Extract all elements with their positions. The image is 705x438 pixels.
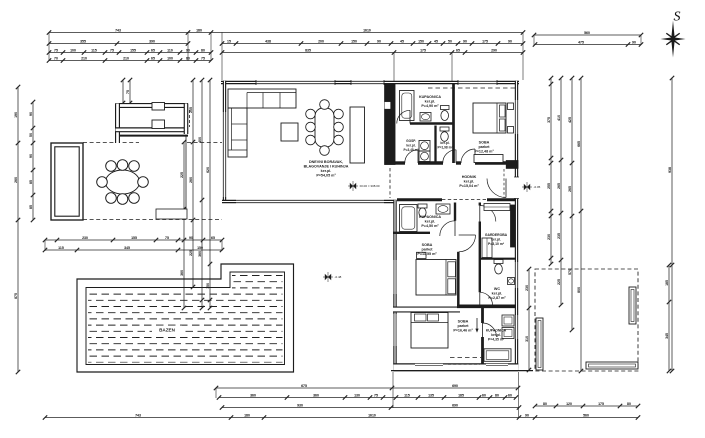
interior wall: garderoba/wc left <box>479 203 481 307</box>
svg-text:410: 410 <box>557 115 561 121</box>
exterior wall: wing left <box>393 200 396 370</box>
pool water hatching <box>78 276 290 363</box>
window: wing left wall bedroom 2 <box>394 260 396 294</box>
bed bedroom 2 <box>416 260 456 296</box>
roof overhang dashed top <box>428 87 515 89</box>
hallway bottom dashed opening <box>442 199 487 201</box>
door: bathroom 2 <box>440 221 455 236</box>
interior wall: bath block / bedroom 1 divider <box>452 84 455 163</box>
pool outer edge <box>77 264 294 372</box>
interior wall: bathroom 2 bottom <box>393 232 430 234</box>
svg-text:P=16,46 m²: P=16,46 m² <box>453 329 473 333</box>
svg-text:P=3,10 m²: P=3,10 m² <box>488 242 505 246</box>
front door opening in right wall <box>514 177 519 199</box>
svg-text:60: 60 <box>482 394 486 398</box>
room label: bedroom 1 <box>474 141 494 154</box>
svg-text:ker.pl.: ker.pl. <box>321 169 332 173</box>
svg-text:90: 90 <box>189 236 193 240</box>
nightstand bedroom 2 <box>417 252 427 258</box>
svg-text:360: 360 <box>313 394 319 398</box>
svg-text:360: 360 <box>198 251 202 257</box>
elevation marker: pool deck <box>323 272 342 282</box>
svg-text:P=4,90 m²: P=4,90 m² <box>421 104 439 108</box>
svg-text:225: 225 <box>180 172 184 178</box>
svg-text:-0.48: -0.48 <box>335 275 342 279</box>
svg-text:375: 375 <box>547 117 551 123</box>
svg-text:90: 90 <box>632 41 636 45</box>
room label: bathroom 1 <box>419 95 441 108</box>
cabinet bathroom 3 lower <box>502 328 514 339</box>
outdoor storage structure (left) <box>51 143 83 220</box>
svg-text:260: 260 <box>189 177 193 183</box>
svg-text:ker.pl.: ker.pl. <box>492 292 503 296</box>
svg-text:255: 255 <box>547 183 551 189</box>
dimension chain: bottom row 2 (segments) <box>217 394 518 400</box>
door: gosp room <box>405 150 418 163</box>
door: bathroom 1 <box>397 110 410 123</box>
door: garderoba <box>480 206 496 222</box>
north arrow compass star <box>661 21 686 58</box>
exterior wall: living room left <box>223 81 226 203</box>
window: wing left wall bedroom 3 <box>394 314 396 346</box>
svg-text:BAZEN: BAZEN <box>159 328 176 333</box>
svg-text:parket: parket <box>457 324 469 328</box>
svg-text:ker.pl.: ker.pl. <box>425 100 436 104</box>
toilet wc 1 <box>440 127 449 141</box>
svg-text:175: 175 <box>420 49 426 53</box>
entry canopy wall line down to step <box>185 135 187 209</box>
svg-text:90: 90 <box>377 40 381 44</box>
front door leaf dashed <box>503 169 505 198</box>
svg-text:675: 675 <box>301 384 307 388</box>
svg-text:938: 938 <box>668 167 672 173</box>
dimension chain: top right (560) <box>532 31 643 37</box>
svg-text:P=3,48 m²: P=3,48 m² <box>404 148 419 152</box>
interior wall: bedroom divider <box>393 307 460 313</box>
svg-text:GOSP.: GOSP. <box>406 139 416 143</box>
exterior wall: living room bottom <box>222 200 396 203</box>
svg-text:180: 180 <box>244 414 250 418</box>
svg-text:75: 75 <box>54 49 58 53</box>
interior wall: garderoba bottom <box>480 258 516 260</box>
svg-text:150: 150 <box>418 40 424 44</box>
svg-text:SOBA: SOBA <box>422 243 433 247</box>
svg-text:360: 360 <box>180 270 184 276</box>
svg-text:225: 225 <box>557 279 561 285</box>
room label: wc 2 <box>488 287 506 300</box>
terrace door dashes on bottom wall <box>448 363 480 365</box>
room label: wc 1 <box>438 141 453 150</box>
svg-text:-0.05: -0.05 <box>534 185 541 189</box>
svg-text:425: 425 <box>568 117 572 123</box>
dimension chain: far right vertical (938) <box>668 76 674 373</box>
dimension chain: top row 3 left (small segments) <box>47 49 213 55</box>
window: top wall kitchen <box>351 80 384 85</box>
terrace dashed boundary top <box>83 142 222 144</box>
dimension chain: top row 4 left <box>47 57 213 63</box>
exterior wall: right <box>515 81 518 368</box>
svg-text:P=4,35 m²: P=4,35 m² <box>488 338 505 342</box>
room label: bedroom 3 <box>453 320 473 333</box>
svg-text:800: 800 <box>577 287 581 293</box>
window: left wall living room <box>224 112 226 197</box>
svg-text:360: 360 <box>250 394 256 398</box>
garderoba shelf right <box>511 205 516 247</box>
dimension chain: terrace row 1 <box>43 236 224 242</box>
svg-text:90: 90 <box>525 414 529 418</box>
svg-text:±0.00 = 308.00: ±0.00 = 308.00 <box>360 184 380 188</box>
svg-text:290: 290 <box>491 49 497 53</box>
svg-text:75: 75 <box>110 49 114 53</box>
svg-text:175: 175 <box>598 402 604 406</box>
interior wall: gosp / wc divider <box>434 126 436 162</box>
dimension chain: bottom row 3 (930/690) <box>220 404 521 410</box>
svg-text:75: 75 <box>374 394 378 398</box>
svg-text:560: 560 <box>584 31 590 35</box>
interior wall: corridor & wc bottom <box>457 304 516 308</box>
exterior wall: top <box>221 81 519 84</box>
svg-text:85: 85 <box>29 205 33 209</box>
svg-text:70: 70 <box>54 57 58 61</box>
svg-text:110: 110 <box>167 49 173 53</box>
svg-text:P=4,50 m²: P=4,50 m² <box>421 224 439 228</box>
svg-text:265: 265 <box>557 183 561 189</box>
svg-text:P=54,05 m²: P=54,05 m² <box>316 174 336 178</box>
outdoor dining table <box>106 170 140 194</box>
svg-text:120: 120 <box>566 402 572 406</box>
svg-text:65: 65 <box>211 236 215 240</box>
svg-text:ker.pl.: ker.pl. <box>425 220 436 224</box>
entry canopy open side dashed <box>189 110 191 127</box>
exterior wall: wing bottom <box>393 363 518 371</box>
garderoba shelf top <box>484 204 510 211</box>
svg-text:90: 90 <box>29 112 33 116</box>
window: bottom wall bedroom 3 <box>415 362 443 366</box>
svg-text:90: 90 <box>508 40 512 44</box>
terrace dashed boundary bottom <box>83 219 222 221</box>
dimension chain: mid vertical 3 <box>198 78 204 310</box>
svg-text:185: 185 <box>458 394 464 398</box>
svg-text:SOBA: SOBA <box>479 141 490 145</box>
svg-text:390: 390 <box>149 40 155 44</box>
entry canopy bench detail <box>152 120 165 129</box>
svg-text:ker.pl.: ker.pl. <box>491 333 501 337</box>
roof overhang dashed bottom <box>450 357 481 359</box>
bench bedroom 1 <box>474 155 503 163</box>
bathtub bathroom 2 <box>400 205 418 232</box>
svg-text:570: 570 <box>568 269 572 275</box>
svg-text:835: 835 <box>305 49 311 53</box>
svg-text:75: 75 <box>165 236 169 240</box>
svg-text:225: 225 <box>189 250 193 256</box>
dining table <box>315 108 334 147</box>
svg-text:KUPAONICA: KUPAONICA <box>419 95 441 99</box>
window: bottom wall bathroom 3 <box>486 362 508 366</box>
svg-text:475: 475 <box>578 41 584 45</box>
entry canopy pillar detail top <box>152 103 165 111</box>
svg-text:65: 65 <box>151 57 155 61</box>
svg-text:KUPAONICA: KUPAONICA <box>486 329 507 333</box>
svg-text:GARDEROBA: GARDEROBA <box>485 233 508 237</box>
window: right wall wc 2 <box>516 262 518 288</box>
garage dashed outline <box>535 269 638 371</box>
svg-text:150: 150 <box>206 283 210 289</box>
pool label BAZEN <box>159 328 176 333</box>
svg-text:S: S <box>674 10 681 25</box>
svg-text:45: 45 <box>400 40 404 44</box>
elevation marker: entrance <box>522 182 541 192</box>
dimension chain: top row 1 (743/180/1610) <box>47 29 525 35</box>
svg-text:930: 930 <box>297 404 303 408</box>
dimension chain: bottom row 4 (743/180/1610/560) <box>43 414 640 420</box>
window: top wall bedroom 1 <box>458 80 497 85</box>
svg-text:175: 175 <box>482 40 488 44</box>
sink bathroom 2 <box>436 204 450 214</box>
svg-text:50: 50 <box>29 133 33 137</box>
room label: garderoba <box>485 233 508 246</box>
svg-text:ker.pl.: ker.pl. <box>464 180 475 184</box>
pool water edge <box>86 272 285 365</box>
kitchen island <box>350 107 365 163</box>
dimension chain: garage right vertical <box>665 263 671 373</box>
toilet bathroom 1 <box>441 106 450 121</box>
svg-text:185: 185 <box>665 280 669 286</box>
garage wall piece bottom <box>586 362 638 369</box>
svg-text:743: 743 <box>135 414 141 418</box>
svg-text:80: 80 <box>543 402 547 406</box>
svg-text:ker.pl.: ker.pl. <box>491 238 501 242</box>
dimension chain: right vertical 4 <box>577 76 583 373</box>
svg-text:80: 80 <box>201 49 205 53</box>
toilet bathroom 2 <box>418 204 427 217</box>
window: living room bottom glazing <box>236 201 384 203</box>
window: top wall living room <box>256 80 335 85</box>
dimension chain: left vertical 2 <box>29 100 35 222</box>
svg-text:210: 210 <box>123 57 129 61</box>
dimension chain: right vertical 3 <box>568 76 574 332</box>
svg-text:155: 155 <box>131 236 137 240</box>
dimension chain: top right row 2 (475/90) <box>533 41 643 47</box>
svg-text:SOBA: SOBA <box>458 320 469 324</box>
dimension chain: mid vertical 2 <box>189 78 195 289</box>
svg-text:65: 65 <box>456 49 460 53</box>
room label: bathroom 2 <box>419 215 441 228</box>
sink bathroom 1 <box>420 113 431 122</box>
nightstands bedroom 1 <box>508 103 514 133</box>
svg-text:ker.pl.: ker.pl. <box>406 144 415 148</box>
interior wall: hallway bottom <box>397 198 516 201</box>
entry canopy walls <box>116 104 189 144</box>
svg-text:150: 150 <box>351 40 357 44</box>
door: bedroom 1 <box>461 149 475 163</box>
room label: bedroom 2 <box>417 243 437 256</box>
dimension chain: mid vertical 1 <box>180 140 186 310</box>
dining chairs <box>306 100 344 156</box>
wing bottom outer paving line <box>391 370 533 372</box>
dimension chain: terrace row 2 <box>43 246 224 252</box>
bed bedroom 1 <box>473 103 506 133</box>
svg-text:100: 100 <box>70 49 76 53</box>
dimension chain: garage left vertical <box>525 267 531 372</box>
sofa (L-shaped) <box>228 89 296 157</box>
north label S <box>674 10 681 25</box>
dimension chain: top row 3 right (835/175) <box>220 49 525 55</box>
svg-text:WC: WC <box>494 287 500 291</box>
svg-text:HODNIK: HODNIK <box>462 175 477 179</box>
interior wall: living/bath block (thick) <box>384 84 395 165</box>
door: front entrance <box>487 179 506 198</box>
svg-text:875: 875 <box>14 293 18 299</box>
svg-text:665: 665 <box>577 141 581 147</box>
svg-text:210: 210 <box>81 57 87 61</box>
dimension chain: bottom right garage row <box>533 402 640 408</box>
svg-text:345: 345 <box>665 333 669 339</box>
svg-text:200: 200 <box>318 40 324 44</box>
dimension chain: canopy left tick 1 <box>121 78 125 105</box>
svg-text:155: 155 <box>130 49 136 53</box>
terrace step at living room door <box>156 209 187 219</box>
svg-text:P=11,55 m²: P=11,55 m² <box>417 252 437 256</box>
sink wc 2 <box>508 278 515 285</box>
svg-text:P=15,04 m²: P=15,04 m² <box>459 184 479 188</box>
svg-text:260: 260 <box>14 177 18 183</box>
wall poche near entrance <box>506 160 518 168</box>
svg-text:230: 230 <box>82 236 88 240</box>
interior wall niche <box>385 102 390 108</box>
interior wall: bathroom 1 bottom <box>410 122 454 125</box>
svg-text:80: 80 <box>495 394 499 398</box>
svg-text:P=12,48 m²: P=12,48 m² <box>474 150 494 154</box>
bathtub bathroom 1 <box>400 91 415 121</box>
svg-text:115: 115 <box>91 49 97 53</box>
svg-text:690: 690 <box>452 404 458 408</box>
entry direction arrow bedroom 3 <box>475 318 478 333</box>
dimension extension lines bottom <box>45 240 519 418</box>
svg-text:parket: parket <box>421 248 433 252</box>
dimension extension lines top <box>49 32 641 84</box>
svg-text:45: 45 <box>434 40 438 44</box>
svg-text:115: 115 <box>404 394 410 398</box>
dimension chain: top row 2 left (355/390) <box>47 40 190 46</box>
svg-text:345: 345 <box>124 246 130 250</box>
outdoor chairs <box>97 160 149 205</box>
dimension chain: top row 2 right (window segments) <box>220 40 525 46</box>
svg-text:560: 560 <box>583 414 589 418</box>
coffee table <box>281 123 298 141</box>
interior wall: hallway top <box>395 161 507 164</box>
svg-text:75: 75 <box>201 57 205 61</box>
svg-text:ker.pl.: ker.pl. <box>440 141 449 145</box>
svg-text:620: 620 <box>206 167 210 173</box>
bed bedroom 3 <box>411 313 448 349</box>
svg-text:230: 230 <box>525 285 529 291</box>
washer dryer gosp <box>419 141 430 162</box>
svg-text:265: 265 <box>568 186 572 192</box>
living/hallway floor transition dashed <box>389 168 391 198</box>
toilet wc 2 <box>494 260 503 275</box>
svg-text:90: 90 <box>463 40 467 44</box>
svg-text:690: 690 <box>452 384 458 388</box>
room label: hallway <box>459 175 479 188</box>
shower bathroom 3 <box>484 349 511 362</box>
interior wall: bathroom 2 right <box>454 203 456 221</box>
garage wall piece left <box>536 318 543 370</box>
svg-text:75: 75 <box>126 90 130 94</box>
svg-text:50: 50 <box>448 40 452 44</box>
svg-text:743: 743 <box>115 29 121 33</box>
svg-text:P=1,98 m²: P=1,98 m² <box>438 146 453 150</box>
svg-text:115: 115 <box>58 246 64 250</box>
dimension chain: right vertical 1 <box>547 76 553 266</box>
room label: living room <box>304 160 349 178</box>
door: bathroom 3 <box>483 323 497 337</box>
svg-text:310: 310 <box>525 336 529 342</box>
svg-text:90: 90 <box>29 154 33 158</box>
garderoba shelf left <box>482 238 492 258</box>
svg-text:180: 180 <box>196 29 202 33</box>
svg-text:235: 235 <box>557 233 561 239</box>
dimension chain: right vertical 2 <box>557 76 563 307</box>
svg-text:355: 355 <box>80 40 86 44</box>
dimension chain: far left vertical (875) <box>14 85 20 374</box>
window: right wall bedroom 1 <box>516 100 518 134</box>
dimension chain: canopy left tick 2 <box>126 78 132 105</box>
dimension chain: bottom row 1 (675/690) <box>214 384 520 390</box>
svg-text:DNEVNI BORAVAK,: DNEVNI BORAVAK, <box>309 160 343 164</box>
interior wall: bathroom 3 left <box>481 306 484 364</box>
door: wc 1 <box>443 150 456 163</box>
door: wc 2 <box>480 292 493 305</box>
svg-text:400: 400 <box>198 137 202 143</box>
pool label background <box>152 326 182 334</box>
garage wall piece right <box>629 287 636 324</box>
interior wall: bedroom 2 right / corridor left <box>457 252 460 307</box>
svg-text:BLAGOVANJE I KUHINJA: BLAGOVANJE I KUHINJA <box>304 165 349 169</box>
room label: bathroom 3 <box>486 329 507 342</box>
svg-text:85: 85 <box>29 180 33 184</box>
svg-text:P=2,87 m²: P=2,87 m² <box>488 296 506 300</box>
svg-text:60: 60 <box>508 394 512 398</box>
svg-text:65: 65 <box>151 49 155 53</box>
door: bedroom 2 <box>459 235 476 252</box>
svg-text:100: 100 <box>167 57 173 61</box>
svg-text:230: 230 <box>547 234 551 240</box>
svg-text:KUPAONICA: KUPAONICA <box>419 215 441 219</box>
svg-text:15: 15 <box>227 40 231 44</box>
svg-text:1610: 1610 <box>368 414 376 418</box>
cabinet bathroom 3 upper <box>502 315 514 326</box>
dimension chain: mid vertical 4 <box>206 78 212 310</box>
svg-text:80: 80 <box>627 402 631 406</box>
svg-text:1610: 1610 <box>363 29 371 33</box>
window: right wall bathroom 3 <box>516 315 518 339</box>
svg-text:130: 130 <box>354 394 360 398</box>
elevation marker: living room <box>348 181 380 191</box>
svg-text:438: 438 <box>265 40 271 44</box>
svg-text:parket: parket <box>478 145 490 149</box>
svg-text:190: 190 <box>14 112 18 118</box>
room label: gosp <box>404 139 419 152</box>
svg-text:135: 135 <box>428 394 434 398</box>
